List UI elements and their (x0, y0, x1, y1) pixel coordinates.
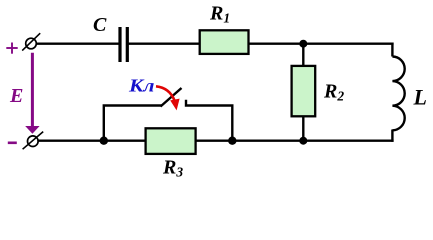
wire bottom: inductor corner to minus terminal (38, 139, 393, 141)
node switch-branch right junction (228, 137, 236, 145)
terminal plus (top left) (22, 33, 40, 50)
node top junction (299, 40, 307, 48)
node switch-branch left junction (100, 137, 108, 145)
svg-text:L: L (413, 85, 427, 110)
inductor L coil (392, 57, 404, 131)
resistor R1 (200, 30, 249, 54)
wire switch branch right contact and riser (186, 100, 232, 141)
node bottom junction under R2 (299, 137, 307, 145)
wire top: capacitor to R1 (129, 43, 201, 45)
wire right side top segment into coil (391, 43, 393, 57)
terminal minus (bottom left) (23, 132, 44, 150)
wire R2 top lead (302, 44, 304, 67)
switch closing arrow (red) (156, 86, 180, 110)
svg-text:Кл: Кл (128, 76, 155, 96)
resistor R2 (292, 66, 316, 116)
resistor R3 (146, 128, 196, 154)
svg-text:E: E (9, 85, 23, 107)
wire switch branch left riser (104, 106, 162, 141)
wire R2 bottom lead (302, 116, 304, 141)
svg-text:C: C (93, 14, 107, 36)
label minus sign (8, 142, 17, 145)
wire top: R1 to right corner (248, 43, 394, 45)
wire top: plus terminal to capacitor (37, 43, 120, 45)
switch Kl blade (161, 88, 182, 107)
capacitor C plates (120, 27, 127, 62)
label plus sign (6, 43, 17, 54)
source E arrow (purple) (25, 53, 39, 134)
wire right side bottom segment out of coil (391, 130, 393, 142)
